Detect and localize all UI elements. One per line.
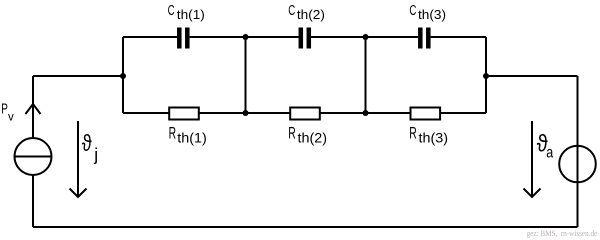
svg-text:th(2): th(2) — [297, 8, 325, 22]
svg-text:th(3): th(3) — [418, 8, 446, 22]
svg-text:R: R — [409, 124, 417, 142]
svg-text:a: a — [546, 145, 553, 162]
svg-text:th(1): th(1) — [177, 8, 205, 22]
svg-text:th(1): th(1) — [177, 130, 207, 145]
svg-text:C: C — [288, 3, 295, 19]
svg-text:R: R — [288, 124, 296, 142]
svg-text:C: C — [168, 3, 175, 19]
svg-text:th(3): th(3) — [419, 130, 449, 145]
svg-text:j: j — [93, 144, 98, 164]
svg-text:ϑ: ϑ — [82, 130, 92, 156]
svg-text:P: P — [1, 102, 8, 118]
svg-text:th(2): th(2) — [298, 130, 328, 145]
svg-text:gez: BMS, rn-wissen.de: gez: BMS, rn-wissen.de — [527, 228, 598, 238]
svg-text:R: R — [169, 124, 177, 142]
svg-text:v: v — [8, 110, 14, 124]
svg-text:C: C — [409, 3, 416, 19]
